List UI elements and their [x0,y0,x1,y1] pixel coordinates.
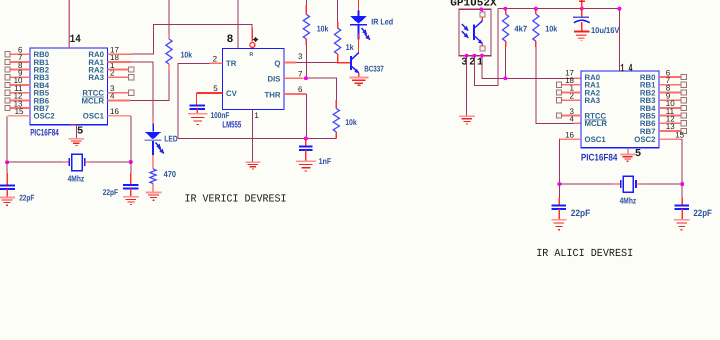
U1 pin 9 RB3 [5,69,50,83]
U2 pin 5 label [213,84,218,93]
wire crystal left [7,161,62,163]
svg-text:15: 15 [15,107,24,116]
ir led D2 [350,16,367,25]
U1 pin 12 RB6 [5,92,50,106]
U4 pin 2 RA3 label [570,91,601,105]
wire U3 pin3 to gnd [466,56,468,116]
svg-text:5: 5 [77,126,83,138]
resistor R7 10k [533,14,539,41]
wire DIS to R5 [306,78,336,103]
C5 bottom lead [581,22,583,31]
svg-text:1: 1 [254,111,259,120]
junction U3 top [479,7,483,11]
junction U3 pin3 [465,54,469,58]
R3 top red [305,5,307,14]
Q1 collector [352,53,359,60]
wire D2 to collector [358,34,360,53]
svg-text:R: R [249,52,253,58]
wire U3 pin1 to RA0 [482,56,576,79]
wire U3 pin2 to rail [474,9,498,86]
R3 to DIS junction [305,45,307,78]
crystal X2 right lead [636,183,643,185]
U3 emitter pad [480,43,485,51]
R5 value 10k [345,117,357,127]
R7 to MCLR [536,47,576,123]
svg-text:4Mhz: 4Mhz [68,173,85,183]
crystal X1 value [68,173,85,183]
wire TR to gnd rail [178,63,210,138]
svg-text:CV: CV [226,89,238,98]
U1 pin 18 RA1 label [88,53,119,67]
svg-text:RA3: RA3 [88,73,104,82]
U2 name label [222,119,241,129]
U2 pin 4 bubble [250,43,255,48]
U1 pin 4 MCLR label [81,92,115,106]
IC U2 LM555 body [223,48,285,109]
svg-text:IR VERICI DEVRESI: IR VERICI DEVRESI [185,194,287,206]
R6 bottom wire [505,47,507,78]
junction R6 RA0 [503,76,507,80]
U1 RA0 stub [108,53,131,55]
capacitor C7 lead2 [681,209,683,220]
svg-text:13: 13 [666,122,675,131]
svg-text:22pF: 22pF [693,208,712,218]
capacitor C3 lead2 [196,109,198,114]
C1 value 22pF [19,193,34,203]
led D1 anode lead [152,117,154,127]
C6 value 22pF [571,208,591,218]
U4 pin 5 label [635,148,641,160]
U4 pin 14 label [620,63,632,76]
U4 pin 5 stub [627,148,629,155]
resistor R1 10k [166,39,172,64]
U1 pin 15 OSC2 [8,107,56,121]
wire crystal right [90,161,131,163]
ground R2 [146,192,162,200]
U3 emitter arm [475,36,483,43]
wire base red [337,62,351,64]
ir led D2 cathode lead [358,25,360,39]
U1 pin 5 wire [70,125,77,139]
ground U3 [459,116,475,124]
svg-text:LM555: LM555 [222,119,241,129]
U4 pin 10 RB4 [640,99,687,113]
svg-text:10k: 10k [545,23,557,33]
junction rail cap [580,7,584,11]
U4 pin 3 RTCC label [570,107,607,121]
U4 pin 9 RB3 [640,91,687,105]
U1 pin 5 label [77,126,83,138]
U1 RTCC stub pad [108,90,134,95]
svg-text:10k: 10k [345,117,357,127]
svg-text:OSC1: OSC1 [83,112,105,121]
svg-text:8: 8 [227,34,234,46]
R6 value 4k7 [514,23,527,33]
U4 OSC2 stub [659,138,683,140]
junction crystal2 left [557,182,561,186]
capacitor C2 lead2 [130,189,132,197]
U1 RA3 stub pad [108,75,134,80]
R4 top wire [337,0,339,22]
C7 value 22pF [693,208,712,218]
ground C5 [574,32,590,41]
U1 OSC1 stub [108,115,132,117]
Q1 emitter [352,67,359,74]
ground C2 [123,197,139,205]
svg-text:TR: TR [226,59,237,68]
led D1 [145,124,162,141]
title IR VERICI DEVRESI [185,194,287,206]
svg-text:IR ALICI DEVRESI: IR ALICI DEVRESI [536,248,633,260]
ground U4 pin5 [620,154,635,161]
U1 name label [30,126,59,137]
svg-text:22pF: 22pF [103,187,118,197]
pin 4 cross mark [253,37,258,42]
resistor R2 top lead [152,155,154,169]
module U3 GP1U52X body [459,9,491,55]
U4 pin 6 RB0 [640,68,687,82]
title IR ALICI DEVRESI [536,248,633,260]
U4 OSC2 name [634,130,684,144]
svg-text:OSC2: OSC2 [634,135,656,144]
IC U4 PIC16F84 body [581,71,659,148]
U3 collector pad [480,9,485,21]
R1 value 10k [181,49,193,59]
svg-text:4Mhz: 4Mhz [620,195,637,205]
R4 value 1k [346,42,354,52]
U3 pin numbers 3 2 1 [461,56,483,68]
U1 pin 10 RB4 [5,76,50,90]
svg-text:1k: 1k [346,42,354,52]
svg-text:100nF: 100nF [211,110,230,120]
crystal X1 right lead [85,161,92,163]
capacitor C7 22pF [675,206,689,210]
U1 pin 1 RA2 label [88,61,115,75]
R2 value 470 [164,169,177,179]
capacitor C7 lead [681,184,683,205]
junction 1nF [304,137,308,141]
capacitor C3 100nF [189,105,205,109]
U2 TR name [226,59,237,68]
svg-text:LED: LED [164,134,177,144]
transistor Q1 base bar [350,56,352,70]
svg-text:6: 6 [298,85,303,94]
capacitor C1 22pF [0,185,15,189]
svg-text:RA3: RA3 [585,96,601,105]
junction crystal right [129,160,133,164]
wire crystal2 left [559,183,614,185]
C4 value 1nF [319,156,332,166]
R4 bottom red [337,54,339,63]
MCLR stub red [574,122,581,124]
U2 pin 6 stub [284,93,306,95]
wire crystal2 right [641,183,682,185]
gnd rail [178,138,336,140]
svg-text:1nF: 1nF [319,156,332,166]
C3 value 100nF [211,110,230,120]
U2 pin 3 label [298,52,303,61]
svg-text:7: 7 [298,70,303,79]
svg-text:DIS: DIS [268,74,281,83]
U2 Q name [274,59,280,68]
U2 pin 1 wire [251,110,253,162]
svg-text:4k7: 4k7 [514,23,527,33]
svg-text:22pF: 22pF [19,193,34,203]
capacitor C6 lead [558,184,560,205]
ground C1 [0,197,15,205]
svg-text:Q: Q [274,59,280,68]
U1 MCLR stub [108,99,131,101]
crystal X2 value [620,195,637,205]
resistor R5 10k [333,109,339,132]
capacitor C4 1nF [299,147,313,151]
U4 pin 17 RA0 label [565,68,601,82]
R7 bottom red [535,41,537,47]
U4 name label [581,152,618,163]
svg-text:5: 5 [635,148,641,160]
C5 value 10u/16V [591,25,620,35]
wire RA0 to 555 reset rail [131,24,252,54]
C5 plus mark [579,0,585,4]
U4 pin 16 OSC1 label [565,130,606,144]
svg-text:2: 2 [213,54,218,63]
C5 top lead [581,2,583,16]
U2 CV name [226,89,238,98]
svg-text:3: 3 [298,52,303,61]
U4 pin 1 RA2 label [570,84,601,98]
vcc rail [498,9,619,71]
svg-text:PIC16F84: PIC16F84 [581,152,618,163]
svg-text:10k: 10k [181,49,193,59]
svg-text:10k: 10k [317,24,329,34]
U2 pin 6 label [298,85,303,94]
R1 top red [168,34,170,40]
junction rail 4k7 [503,7,507,11]
capacitor C2 22pF [123,185,139,189]
R6 top red [505,9,507,14]
U3 label GP1U52X [450,0,497,9]
ground C3 [188,114,208,125]
U1 pin 2 RA3 label [88,69,115,83]
svg-text:IR Led: IR Led [371,17,393,27]
U2 pin 5 stub [197,92,223,94]
junction rail 10k [534,7,538,11]
R5 bottom red [335,132,337,139]
svg-text:PIC16F84: PIC16F84 [30,126,59,137]
capacitor C5 plate curved [574,20,590,23]
R1 bottom red [168,64,170,70]
R7 value 10k [545,23,557,33]
U2 pin 7 stub [284,77,304,79]
R3 value 10k [317,24,329,34]
U2 pin 8 wire [237,0,239,48]
crystal X1 left lead [62,161,69,163]
RA0 stub red [574,77,581,79]
svg-text:OSC1: OSC1 [585,135,607,144]
svg-text:14: 14 [70,34,81,46]
capacitor C4 lead2 [305,150,307,161]
IC U1 PIC16F84 body [30,48,108,125]
U2 pin 7 label [298,70,303,79]
U1 pin 8 RB2 [5,61,50,75]
resistor R3 10k [303,14,309,39]
U4 RA3 stub pad [556,98,581,103]
U2 reset R glyph [249,52,253,58]
R3 bottom red [305,39,307,45]
capacitor C6 22pF [552,206,566,210]
svg-text:10u/16V: 10u/16V [591,25,620,35]
D2 label IR Led [371,17,393,27]
svg-text:MCLR: MCLR [585,119,608,128]
crystal X2 left lead [614,183,621,185]
svg-text:470: 470 [164,169,177,179]
led D1 arrows [156,143,164,154]
U4 pin 8 RB2 [640,84,687,98]
wire OSC1 down to crystal net [130,116,132,162]
R6 bottom red [505,41,507,47]
U1 pin 3 RTCC label [82,84,115,98]
svg-text:22pF: 22pF [571,208,591,218]
R1 top wire [168,0,170,34]
U4 pin 13 RB7 [640,122,687,136]
svg-text:MCLR: MCLR [81,96,104,105]
U1 RA2 stub pad [108,67,134,72]
U1 pin 14 label [70,34,81,46]
Q1 emitter lead [358,73,360,77]
reset wire red segment [251,28,253,42]
led D1 label [164,134,177,144]
crystal X1 [69,154,84,170]
ground U1 pin5 [69,139,85,146]
resistor R6 4k7 [503,14,509,41]
wire MCLR to R1 [130,70,169,100]
R3 top wire [305,0,307,5]
svg-text:OSC2: OSC2 [34,112,56,121]
U1 pin 6 RB0 [5,45,50,59]
resistor R2 470 [150,169,156,184]
svg-text:16: 16 [110,107,119,116]
resistor R4 1k [335,28,341,54]
ir led D2 arrows [362,28,370,40]
wire RA1 to LED [131,62,153,119]
U4 pin 18 RA1 label [565,76,601,90]
wire OSC2 to crystal net [6,116,8,162]
U4 OSC1 stub [559,138,581,140]
R4 top red [337,22,339,28]
U1 pin 17 RA0 label [88,45,119,59]
capacitor C6 lead2 [558,209,560,220]
U4 pin 12 RB6 [640,115,687,129]
Q1 label BC337 [364,64,384,74]
U1 pin 7 RB1 [5,53,50,67]
U4 RTCC stub pad [556,113,581,118]
capacitor C3 lead [196,93,198,105]
U1 pin 14 wire [68,0,70,48]
ground U2 pin1 [245,162,260,169]
U1 pin 16 OSC1 label [83,107,120,121]
R7 top red [535,9,537,14]
capacitor C1 lead2 [6,189,8,197]
svg-text:16: 16 [565,130,574,139]
U2 pin 3 stub [284,62,296,64]
ground Q1 [349,77,368,85]
junction crystal left [5,160,9,164]
U4 RA1 stub pad [556,82,581,87]
U4 RA2 stub pad [556,90,581,95]
resistor R2 bottom lead [152,184,154,193]
U3 phototransistor bar [473,24,475,39]
wire Q to base [296,62,337,64]
U3 light arrows [462,24,469,38]
capacitor C5 plate top [573,16,589,18]
U3 collector arm [475,21,482,28]
junction U3 pin1 [480,54,484,58]
U1 pin 13 RB7 [5,99,49,113]
ground C4 [296,161,316,171]
ground C6 [551,220,566,230]
svg-text:5: 5 [213,84,218,93]
ir led D2 lead [358,0,360,16]
U1 RA1 stub [108,61,131,63]
U2 DIS name [268,74,281,83]
U2 pin 8 label [227,34,234,46]
capacitor C4 lead [305,139,307,147]
led D1 cathode lead [152,141,154,155]
svg-text:GP1U52X: GP1U52X [450,0,497,9]
svg-text:15: 15 [675,130,684,139]
svg-text:BC337: BC337 [364,64,384,74]
junction crystal2 right [680,182,684,186]
wire OSC2 down [681,139,683,184]
U4 pin 11 RB5 [640,107,687,121]
junction U3 pin2 [472,54,476,58]
junction rail corner [617,7,621,11]
wire THR to gnd rail [305,94,307,138]
capacitor C2 lead [130,162,132,185]
U2 THR name [264,90,280,99]
ground C7 [674,220,689,230]
R5 top red [335,100,337,109]
U4 pin 7 RB1 [640,76,687,90]
capacitor C1 lead [6,162,8,185]
U2 pin 2 label [213,54,218,63]
U2 pin 2 stub [210,62,223,64]
C2 value 22pF [103,187,118,197]
crystal X2 [621,176,636,192]
svg-text:THR: THR [264,90,280,99]
U2 pin 1 label [254,111,259,120]
U1 pin 11 RB5 [5,84,50,98]
wire OSC1 down [558,139,560,184]
svg-text:1 4: 1 4 [620,63,632,76]
U4 pin 4 MCLR label [570,115,608,129]
junction DIS [304,76,308,80]
